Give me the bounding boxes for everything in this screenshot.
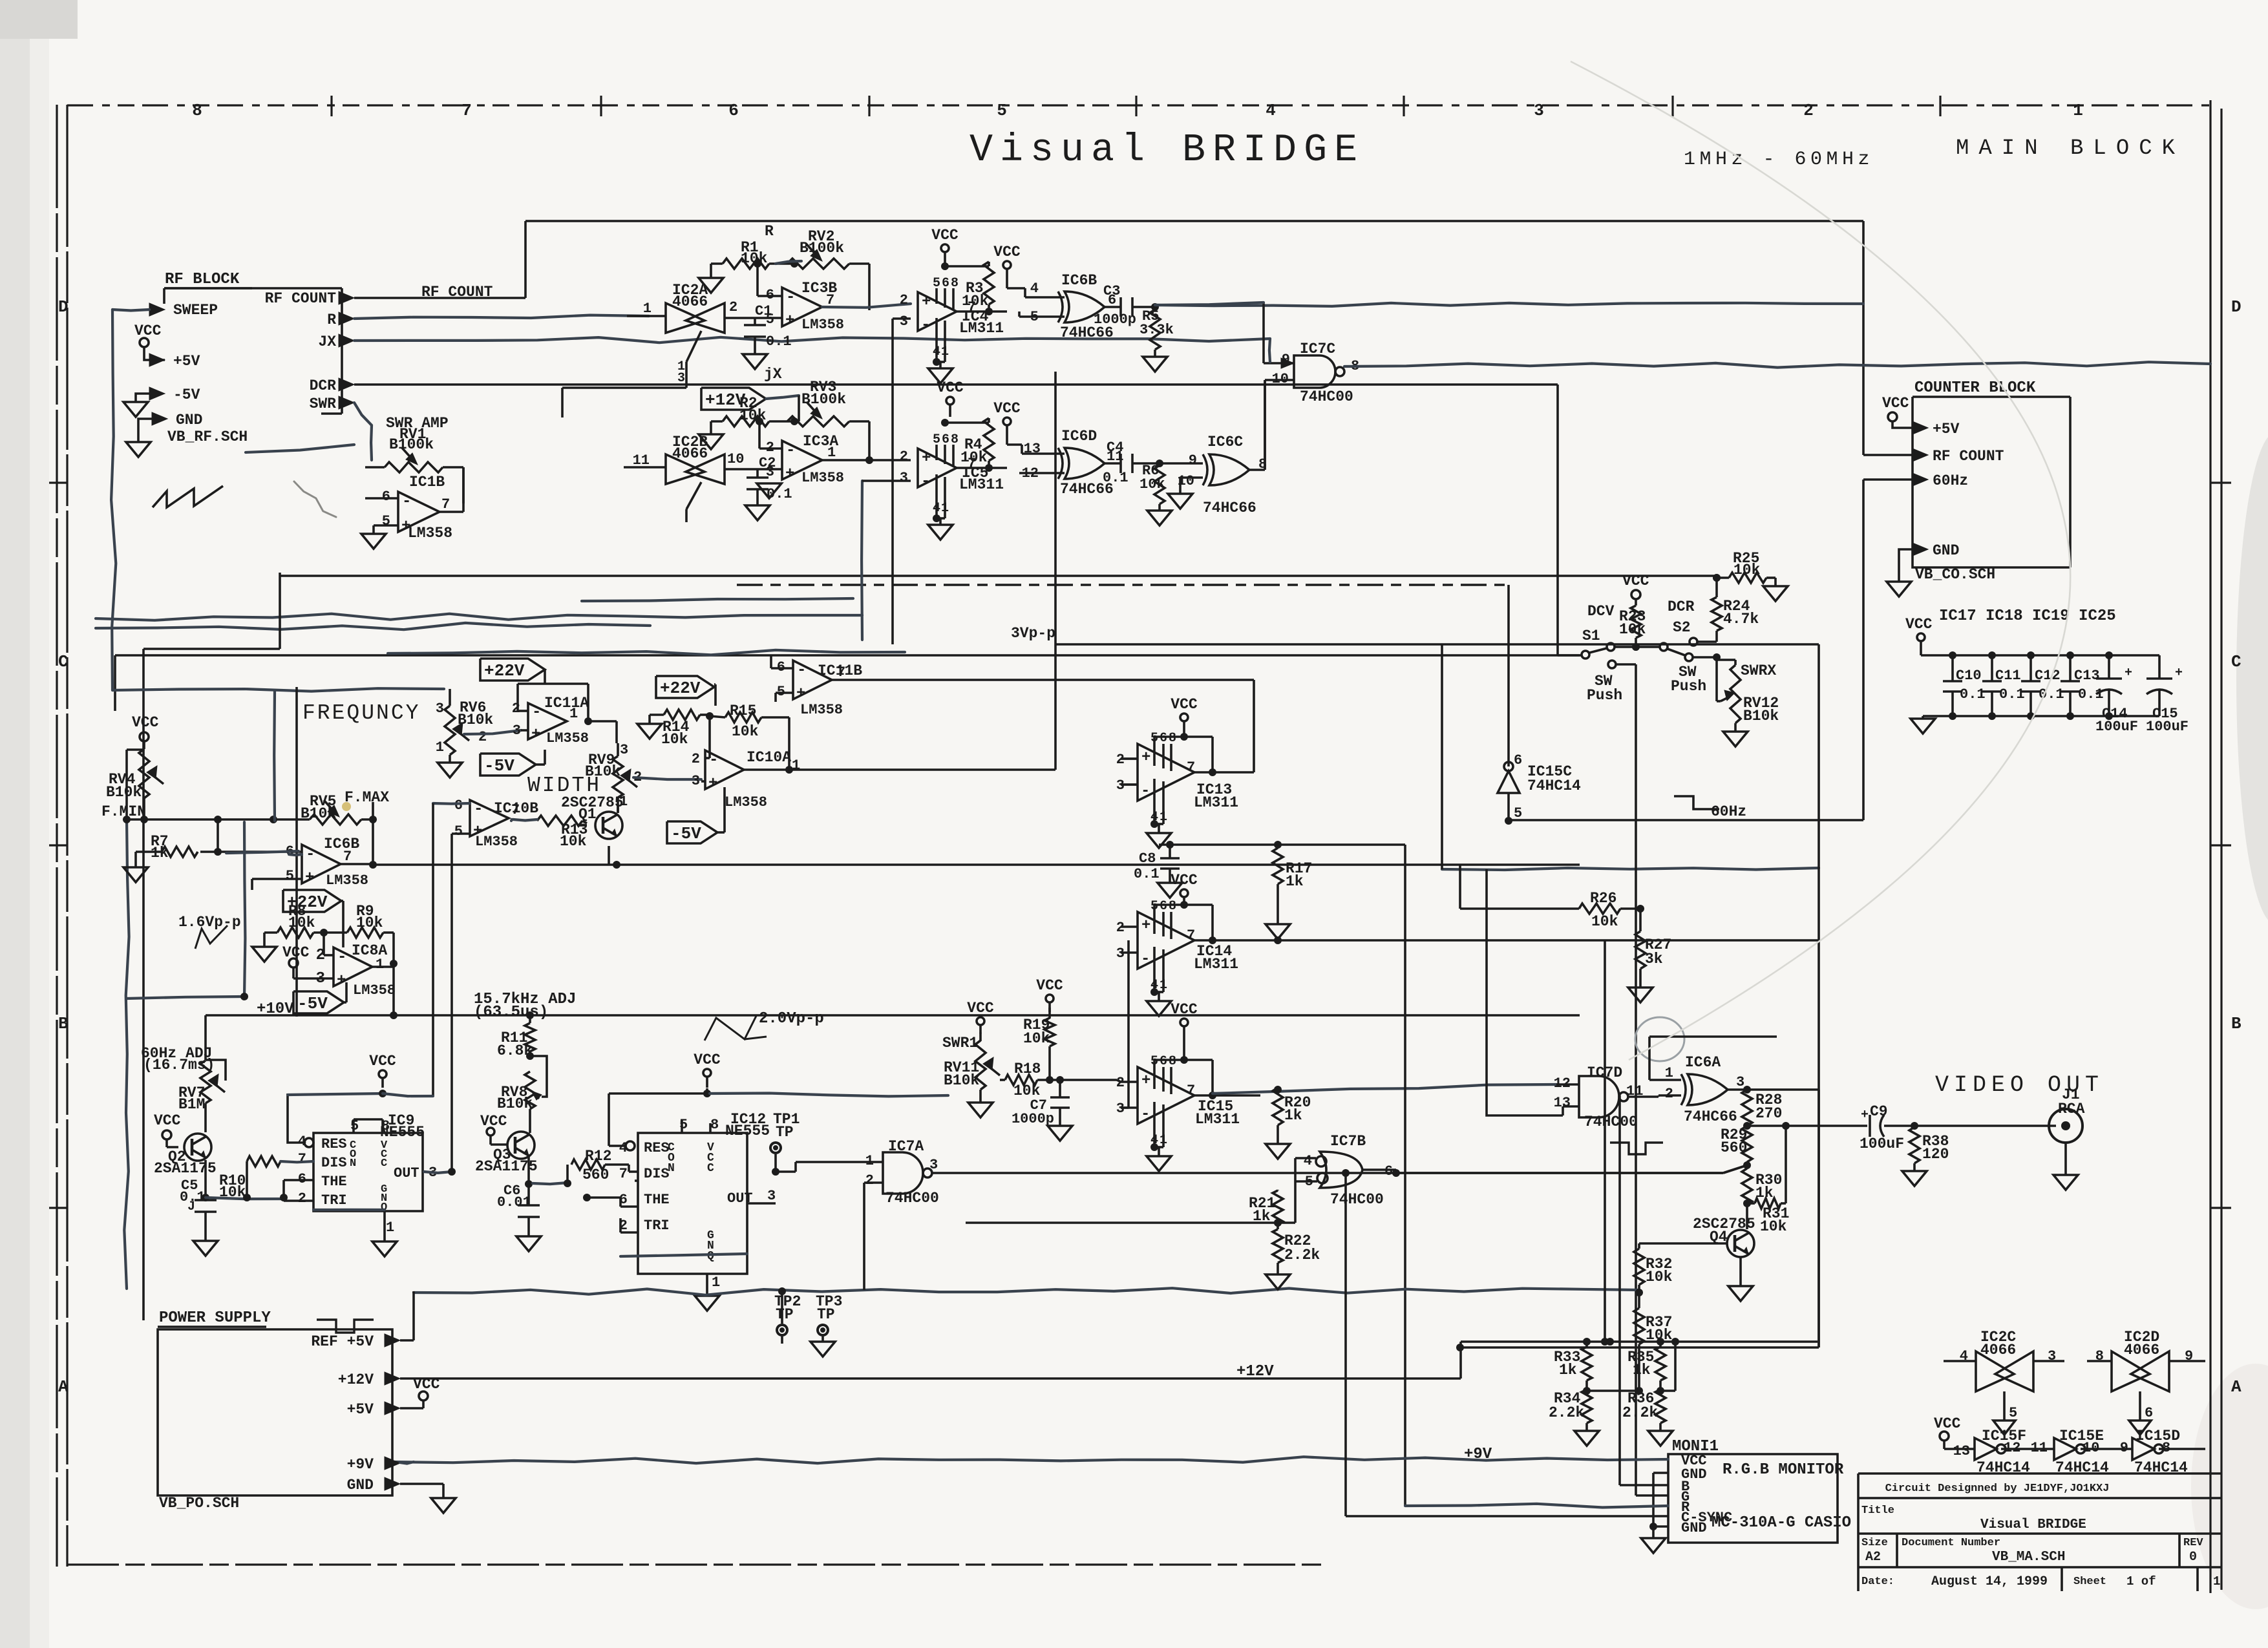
svg-text:R: R [327, 312, 336, 328]
title block Title [1861, 1505, 2086, 1532]
svg-text:-: - [786, 289, 795, 306]
svg-text:-: - [921, 473, 930, 491]
svg-text:A2: A2 [1865, 1550, 1881, 1565]
comparator IC15 LM311 [1116, 1054, 1240, 1171]
wire mid bus1 [280, 576, 1717, 585]
svg-text:-: - [1141, 951, 1150, 968]
MONI1 labels [1681, 1453, 1851, 1536]
svg-text:+: + [305, 869, 314, 887]
svg-text:IC6C: IC6C [1207, 434, 1243, 450]
resistor R22 [1266, 1219, 1320, 1289]
svg-text:74HC00: 74HC00 [1300, 388, 1353, 405]
svg-text:IC6D: IC6D [1061, 428, 1097, 445]
svg-text:+5V: +5V [1933, 421, 1960, 438]
label DCV [1587, 603, 1615, 620]
svg-text:3: 3 [1736, 1074, 1744, 1090]
svg-text:VB_PO.SCH: VB_PO.SCH [159, 1495, 239, 1512]
svg-text:B10k: B10k [944, 1072, 979, 1089]
wire hand bus c [582, 598, 853, 601]
analog switch IC2B 4066 [624, 434, 769, 522]
svg-text:1: 1 [2213, 1574, 2220, 1589]
svg-text:10: 10 [727, 451, 744, 467]
svg-text:7: 7 [837, 664, 845, 681]
potentiometer RV6 [436, 689, 521, 777]
svg-text:1: 1 [436, 739, 444, 755]
svg-text:7: 7 [619, 1166, 628, 1182]
wire DCR net [354, 385, 1580, 655]
transistor Q1 2SC2785 [561, 794, 624, 865]
svg-text:-: - [402, 493, 411, 511]
svg-text:5: 5 [382, 513, 390, 529]
svg-text:VCC: VCC [1171, 872, 1198, 889]
svg-text:+: + [922, 293, 931, 311]
svg-text:5: 5 [454, 823, 463, 840]
resistor R26 [1460, 865, 1644, 930]
svg-text:-5V: -5V [484, 756, 514, 776]
resistor R5 [1139, 308, 1174, 372]
svg-text:-: - [532, 704, 541, 721]
resistor R10 [219, 1156, 282, 1201]
svg-text:10k: 10k [1760, 1218, 1787, 1235]
svg-text:8: 8 [951, 276, 959, 291]
svg-text:1: 1 [827, 445, 836, 461]
wire video node [1747, 1122, 1867, 1130]
svg-text:2: 2 [729, 299, 737, 315]
svg-text:6: 6 [382, 489, 390, 505]
test point TP1 [769, 1111, 800, 1176]
svg-text:IC17 IC18 IC19 IC25: IC17 IC18 IC19 IC25 [1939, 607, 2116, 625]
transistor Q4 2SC2785 [1639, 1212, 1755, 1301]
POWER SUPPLY box [158, 1309, 392, 1512]
svg-text:VCC: VCC [1036, 977, 1063, 994]
svg-text:8: 8 [1169, 1054, 1176, 1069]
svg-text:VCC: VCC [134, 322, 162, 339]
svg-text:D: D [2231, 297, 2242, 317]
svg-text:74HC66: 74HC66 [1684, 1108, 1737, 1125]
capacitor C8 [1134, 841, 1182, 898]
resistor R4 [945, 418, 994, 472]
VCC Q3 [480, 1113, 507, 1145]
svg-text:6: 6 [1160, 899, 1167, 914]
svg-text:THE: THE [644, 1192, 670, 1208]
svg-text:74HC66: 74HC66 [1203, 500, 1256, 516]
flag +12V [701, 388, 799, 410]
transistor Q2 2SA1175 [154, 1103, 217, 1201]
svg-text:Title: Title [1861, 1505, 1894, 1517]
wire IC10B col1 [432, 803, 434, 1097]
resistor R33 [1554, 1338, 1592, 1395]
NAND gate IC7D [1554, 1064, 1681, 1130]
label S2 [1673, 619, 1691, 636]
wire left vert1 [115, 655, 273, 819]
svg-text:-5V: -5V [671, 824, 701, 843]
svg-text:SWR1: SWR1 [942, 1035, 978, 1051]
svg-text:60Hz: 60Hz [1933, 472, 1968, 489]
svg-text:+: + [2175, 666, 2183, 681]
pencil mark [294, 481, 336, 517]
svg-text:100uF: 100uF [2095, 719, 2138, 735]
wire IC7D in13 [1487, 869, 1563, 1115]
svg-text:2: 2 [900, 292, 908, 308]
VCC IC15 [1171, 1001, 1198, 1064]
svg-text:1: 1 [712, 1274, 720, 1291]
svg-text:VCC: VCC [931, 227, 959, 244]
wire JX net [354, 337, 1270, 343]
flag +22V IC8A [283, 890, 343, 947]
svg-text:B100k: B100k [800, 240, 844, 257]
svg-text:N: N [350, 1157, 356, 1170]
svg-text:1: 1 [1160, 810, 1167, 825]
VCC IC14 [1171, 872, 1198, 909]
svg-text:Circuit Designned by JE1DYF,JO: Circuit Designned by JE1DYF,JO1KXJ [1885, 1483, 2110, 1495]
svg-text:F.MAX: F.MAX [344, 789, 389, 806]
+10V label [257, 1000, 294, 1018]
comparator IC4 LM311 [900, 262, 1004, 383]
wire r3x nodes [1587, 1342, 1675, 1391]
svg-text:7: 7 [1187, 759, 1195, 776]
VCC IC13 [1171, 696, 1198, 741]
svg-text:6: 6 [1160, 731, 1167, 746]
svg-text:270: 270 [1755, 1105, 1782, 1122]
svg-text:TP: TP [817, 1306, 835, 1323]
title block row1 [1885, 1483, 2110, 1495]
svg-text:B10k: B10k [106, 784, 142, 801]
svg-text:J: J [187, 1199, 195, 1214]
inverter IC15F [1953, 1428, 2054, 1476]
op-amp IC1B [361, 467, 463, 549]
op-amp IC3B [754, 260, 911, 333]
svg-text:1: 1 [569, 706, 578, 722]
wire C5 node [206, 1194, 284, 1201]
capacitor C12 [2021, 651, 2064, 716]
svg-text:6: 6 [728, 101, 739, 120]
svg-text:10k: 10k [960, 449, 988, 466]
svg-text:1k: 1k [1253, 1208, 1271, 1225]
resistor R15 [710, 703, 793, 774]
svg-text:-: - [1141, 783, 1150, 800]
comparator IC13 LM311 [1116, 731, 1238, 848]
resistor R8 [252, 903, 347, 962]
svg-text:LM358: LM358 [326, 872, 368, 889]
svg-text:LM311: LM311 [1195, 1111, 1240, 1128]
wire +12V up [1459, 1342, 1462, 1379]
svg-text:IC1B: IC1B [409, 474, 445, 491]
svg-text:THE: THE [321, 1174, 347, 1190]
op-amp IC10A [692, 716, 1055, 810]
svg-text:COUNTER BLOCK: COUNTER BLOCK [1914, 379, 2036, 397]
svg-text:-: - [1141, 1106, 1150, 1123]
wire IC7B out [1163, 1221, 1278, 1224]
svg-text:Date:: Date: [1861, 1576, 1894, 1588]
transistor Q3 2SA1175 [475, 1132, 538, 1188]
op-amp IC10B [433, 798, 538, 850]
svg-text:VCC: VCC [154, 1112, 181, 1129]
svg-text:2: 2 [900, 449, 908, 465]
svg-text:5: 5 [679, 1117, 688, 1133]
resistor R28 [1742, 1090, 1782, 1130]
capacitor C14 [2095, 651, 2138, 735]
resistor R13 [513, 816, 588, 850]
svg-text:0.1: 0.1 [767, 486, 792, 502]
wire SWR net [246, 403, 372, 460]
svg-text:0.1: 0.1 [1999, 686, 2025, 703]
resistor R9 [347, 903, 394, 964]
flag -5V IC10A [667, 787, 725, 843]
wire hand bus b [96, 623, 650, 629]
OR gate IC7B [1278, 1133, 1400, 1223]
potentiometer RV3 [787, 379, 869, 451]
svg-text:74HC00: 74HC00 [1584, 1114, 1638, 1130]
svg-text:0.01: 0.01 [497, 1194, 531, 1210]
svg-text:7: 7 [441, 496, 450, 512]
svg-text:+: + [1861, 1108, 1869, 1123]
IC labels bypass [1939, 607, 2116, 625]
svg-text:VB_RF.SCH: VB_RF.SCH [167, 428, 248, 445]
label DCR [1668, 598, 1695, 615]
potentiometer RV4 [101, 714, 164, 823]
label SWRX [1741, 662, 1776, 679]
VCC IC8A [282, 944, 334, 978]
wire IC10B col2 [450, 834, 453, 1172]
svg-text:FREQUNCY: FREQUNCY [302, 701, 420, 725]
svg-text:560: 560 [582, 1167, 609, 1183]
svg-text:N: N [668, 1162, 675, 1175]
VCC power [413, 1376, 440, 1400]
label 60Hz ADJ [141, 1045, 215, 1073]
svg-text:VB_MA.SCH: VB_MA.SCH [1992, 1550, 2065, 1565]
svg-text:3: 3 [436, 701, 444, 717]
wire left vert3 [124, 819, 129, 1289]
capacitor C7 [1012, 1080, 1072, 1141]
svg-text:RF COUNT: RF COUNT [265, 290, 337, 307]
svg-text:August 14, 1999: August 14, 1999 [1931, 1574, 2048, 1589]
svg-text:2.2k: 2.2k [1284, 1247, 1320, 1263]
analog switch IC2A 4066 [562, 282, 769, 417]
svg-text:C: C [58, 652, 69, 671]
XOR gate IC6D [989, 428, 1123, 498]
wire TP rail [414, 1287, 1639, 1324]
svg-text:VCC: VCC [369, 1053, 396, 1070]
svg-text:2: 2 [478, 729, 487, 745]
label 15.7kHz [474, 991, 576, 1021]
svg-text:5: 5 [766, 312, 774, 328]
resistor R1 [699, 239, 798, 293]
svg-text:3: 3 [692, 773, 700, 789]
wire freq net [112, 687, 444, 1017]
svg-text:1.6Vp-p: 1.6Vp-p [178, 914, 241, 931]
comparator IC14 LM311 [1116, 899, 1238, 1016]
wire IC15 ref [1121, 940, 1129, 1108]
switch SW push lower [1608, 660, 1636, 668]
svg-text:+5V: +5V [173, 353, 200, 370]
NAND gate IC7A [776, 1138, 1747, 1254]
XOR gate IC6B [989, 272, 1121, 341]
svg-text:IC6B: IC6B [324, 836, 359, 852]
wire width node [613, 721, 620, 869]
net label jX [764, 366, 782, 383]
op-amp IC11A [512, 684, 617, 746]
svg-text:3: 3 [677, 371, 685, 386]
waveform sq1 [317, 1320, 374, 1333]
svg-text:Size: Size [1861, 1537, 1888, 1549]
svg-text:VCC: VCC [937, 379, 964, 396]
POWER pins [311, 1291, 1461, 1513]
resistor R38 [1902, 1127, 1949, 1186]
svg-text:+: + [1141, 1072, 1150, 1090]
svg-text:3: 3 [767, 1188, 776, 1204]
IC12 NE555 [583, 1088, 776, 1311]
svg-text:IC7B: IC7B [1330, 1133, 1366, 1150]
svg-text:LM358: LM358 [408, 525, 452, 542]
flag -5V IC8A [293, 982, 346, 1013]
flag +22V IC11A [480, 659, 545, 684]
svg-text:IC6B: IC6B [1061, 272, 1097, 289]
svg-text:B1M: B1M [178, 1096, 205, 1113]
capacitor C13 [2061, 651, 2104, 716]
svg-text:LM358: LM358 [475, 834, 518, 850]
svg-text:74HC14: 74HC14 [2055, 1459, 2109, 1476]
svg-text:1: 1 [2073, 101, 2083, 120]
potentiometer RV7 [178, 1060, 226, 1113]
resistor R25 [1713, 550, 1788, 601]
resistor R31 [1747, 1126, 1789, 1235]
resistor R24 [1712, 574, 1759, 631]
resistor R14 [637, 710, 714, 748]
svg-text:A: A [58, 1377, 69, 1397]
wire fmax node [369, 819, 377, 869]
svg-text:-5V: -5V [297, 994, 328, 1013]
svg-text:VCC: VCC [1934, 1415, 1961, 1432]
pencil circle [1635, 1017, 1684, 1061]
svg-text:-: - [797, 662, 806, 679]
capacitor C3 [1094, 283, 1863, 328]
RF BLOCK box [164, 271, 354, 445]
connector J1 RCA [2049, 1086, 2085, 1190]
svg-text:3: 3 [513, 723, 521, 739]
net label R [765, 223, 774, 240]
svg-text:3: 3 [1534, 101, 1544, 120]
potentiometer RV11 [944, 1033, 1000, 1117]
svg-text:VCC: VCC [413, 1376, 440, 1393]
svg-text:5: 5 [2009, 1405, 2017, 1421]
svg-text:1: 1 [792, 757, 800, 774]
svg-text:74HC00: 74HC00 [885, 1190, 939, 1207]
svg-text:7: 7 [1187, 1083, 1195, 1099]
resistor R36 [1622, 1389, 1673, 1446]
title block date [1861, 1574, 2220, 1589]
svg-text:-: - [921, 317, 930, 334]
svg-text:+: + [922, 450, 931, 467]
svg-text:VCC: VCC [1171, 1001, 1198, 1018]
resistor R35 [1627, 1338, 1666, 1395]
op-amp IC6B-358 [218, 836, 373, 890]
svg-text:1: 1 [643, 301, 652, 317]
wire RF COUNT [354, 221, 1913, 455]
wire SWEEP [111, 310, 149, 690]
VCC IC4 [931, 227, 959, 268]
VCC R19 [1036, 977, 1063, 1012]
label S1 [1582, 628, 1600, 644]
wire y1803 [1396, 1165, 1747, 1173]
svg-text:RES: RES [321, 1136, 347, 1152]
capacitor C5 [180, 1178, 218, 1256]
resistor R12 [533, 1148, 638, 1187]
svg-text:SWRX: SWRX [1741, 662, 1776, 679]
svg-text:0.1: 0.1 [1134, 866, 1160, 882]
op-amp IC3A [756, 417, 911, 498]
svg-text:C8: C8 [1139, 850, 1156, 867]
svg-text:jX: jX [764, 366, 782, 383]
svg-text:RF COUNT: RF COUNT [1933, 448, 2004, 465]
wire switch drop [1635, 664, 1637, 1495]
svg-text:6: 6 [1514, 752, 1522, 768]
svg-text:DCR: DCR [310, 377, 337, 394]
svg-text:C9: C9 [1870, 1103, 1888, 1120]
potentiometer RV1 [365, 448, 463, 503]
svg-text:2.2k: 2.2k [1622, 1404, 1658, 1421]
svg-text:74HC00: 74HC00 [1330, 1191, 1384, 1208]
svg-text:LM358: LM358 [546, 730, 589, 746]
capacitor C2 [745, 455, 792, 520]
svg-text:Visual BRIDGE: Visual BRIDGE [970, 129, 1364, 173]
svg-text:6: 6 [2145, 1405, 2153, 1421]
svg-text:1k: 1k [1284, 1107, 1302, 1124]
resistor R17 [1273, 841, 1312, 924]
svg-text:B: B [2231, 1014, 2242, 1033]
svg-text:1k: 1k [1559, 1362, 1577, 1379]
wire hand jx tail [1269, 339, 1270, 362]
VCC IC9 [369, 1053, 433, 1097]
svg-text:IC11A: IC11A [544, 695, 589, 712]
title block box [1858, 1474, 2221, 1591]
switch S2 upper contact [1690, 631, 1717, 646]
VCC IC5 a [937, 379, 964, 417]
svg-text:6: 6 [1160, 1054, 1167, 1069]
label +12V net [1236, 1363, 1274, 1380]
label SW Push 2 [1671, 664, 1706, 695]
svg-text:GND: GND [1681, 1520, 1707, 1536]
wire Q4 box [1456, 1090, 1819, 1351]
wire pen riser [127, 690, 299, 1000]
svg-text:+: + [1141, 749, 1150, 766]
COUNTER pins [1863, 395, 2004, 597]
test point TP2 [774, 1293, 801, 1344]
svg-text:RES: RES [644, 1140, 670, 1156]
svg-text:+: + [708, 775, 717, 792]
svg-text:C: C [2231, 652, 2242, 671]
VCC Q2 [154, 1112, 181, 1147]
resistor R19 [1023, 1008, 1055, 1084]
SWR AMP label [386, 415, 449, 453]
test point TP3 [811, 1293, 842, 1357]
svg-text:S1: S1 [1582, 628, 1600, 644]
VCC R23 [1622, 573, 1649, 606]
svg-text:C: C [707, 1162, 714, 1175]
svg-text:GND: GND [176, 412, 202, 428]
svg-text:74HC14: 74HC14 [1527, 777, 1581, 794]
svg-text:3: 3 [900, 313, 908, 330]
svg-text:LM311: LM311 [1194, 956, 1238, 973]
wire video out [1914, 1125, 2056, 1127]
wire 1892 bus [966, 1221, 1163, 1224]
wire R net [354, 315, 649, 319]
svg-text:8: 8 [710, 1117, 719, 1133]
svg-text:4: 4 [1304, 1153, 1312, 1169]
svg-text:Sheet: Sheet [2073, 1576, 2106, 1588]
svg-text:LM311: LM311 [959, 320, 1004, 337]
svg-text:7: 7 [1187, 927, 1195, 944]
switch S1 [1580, 643, 1659, 659]
